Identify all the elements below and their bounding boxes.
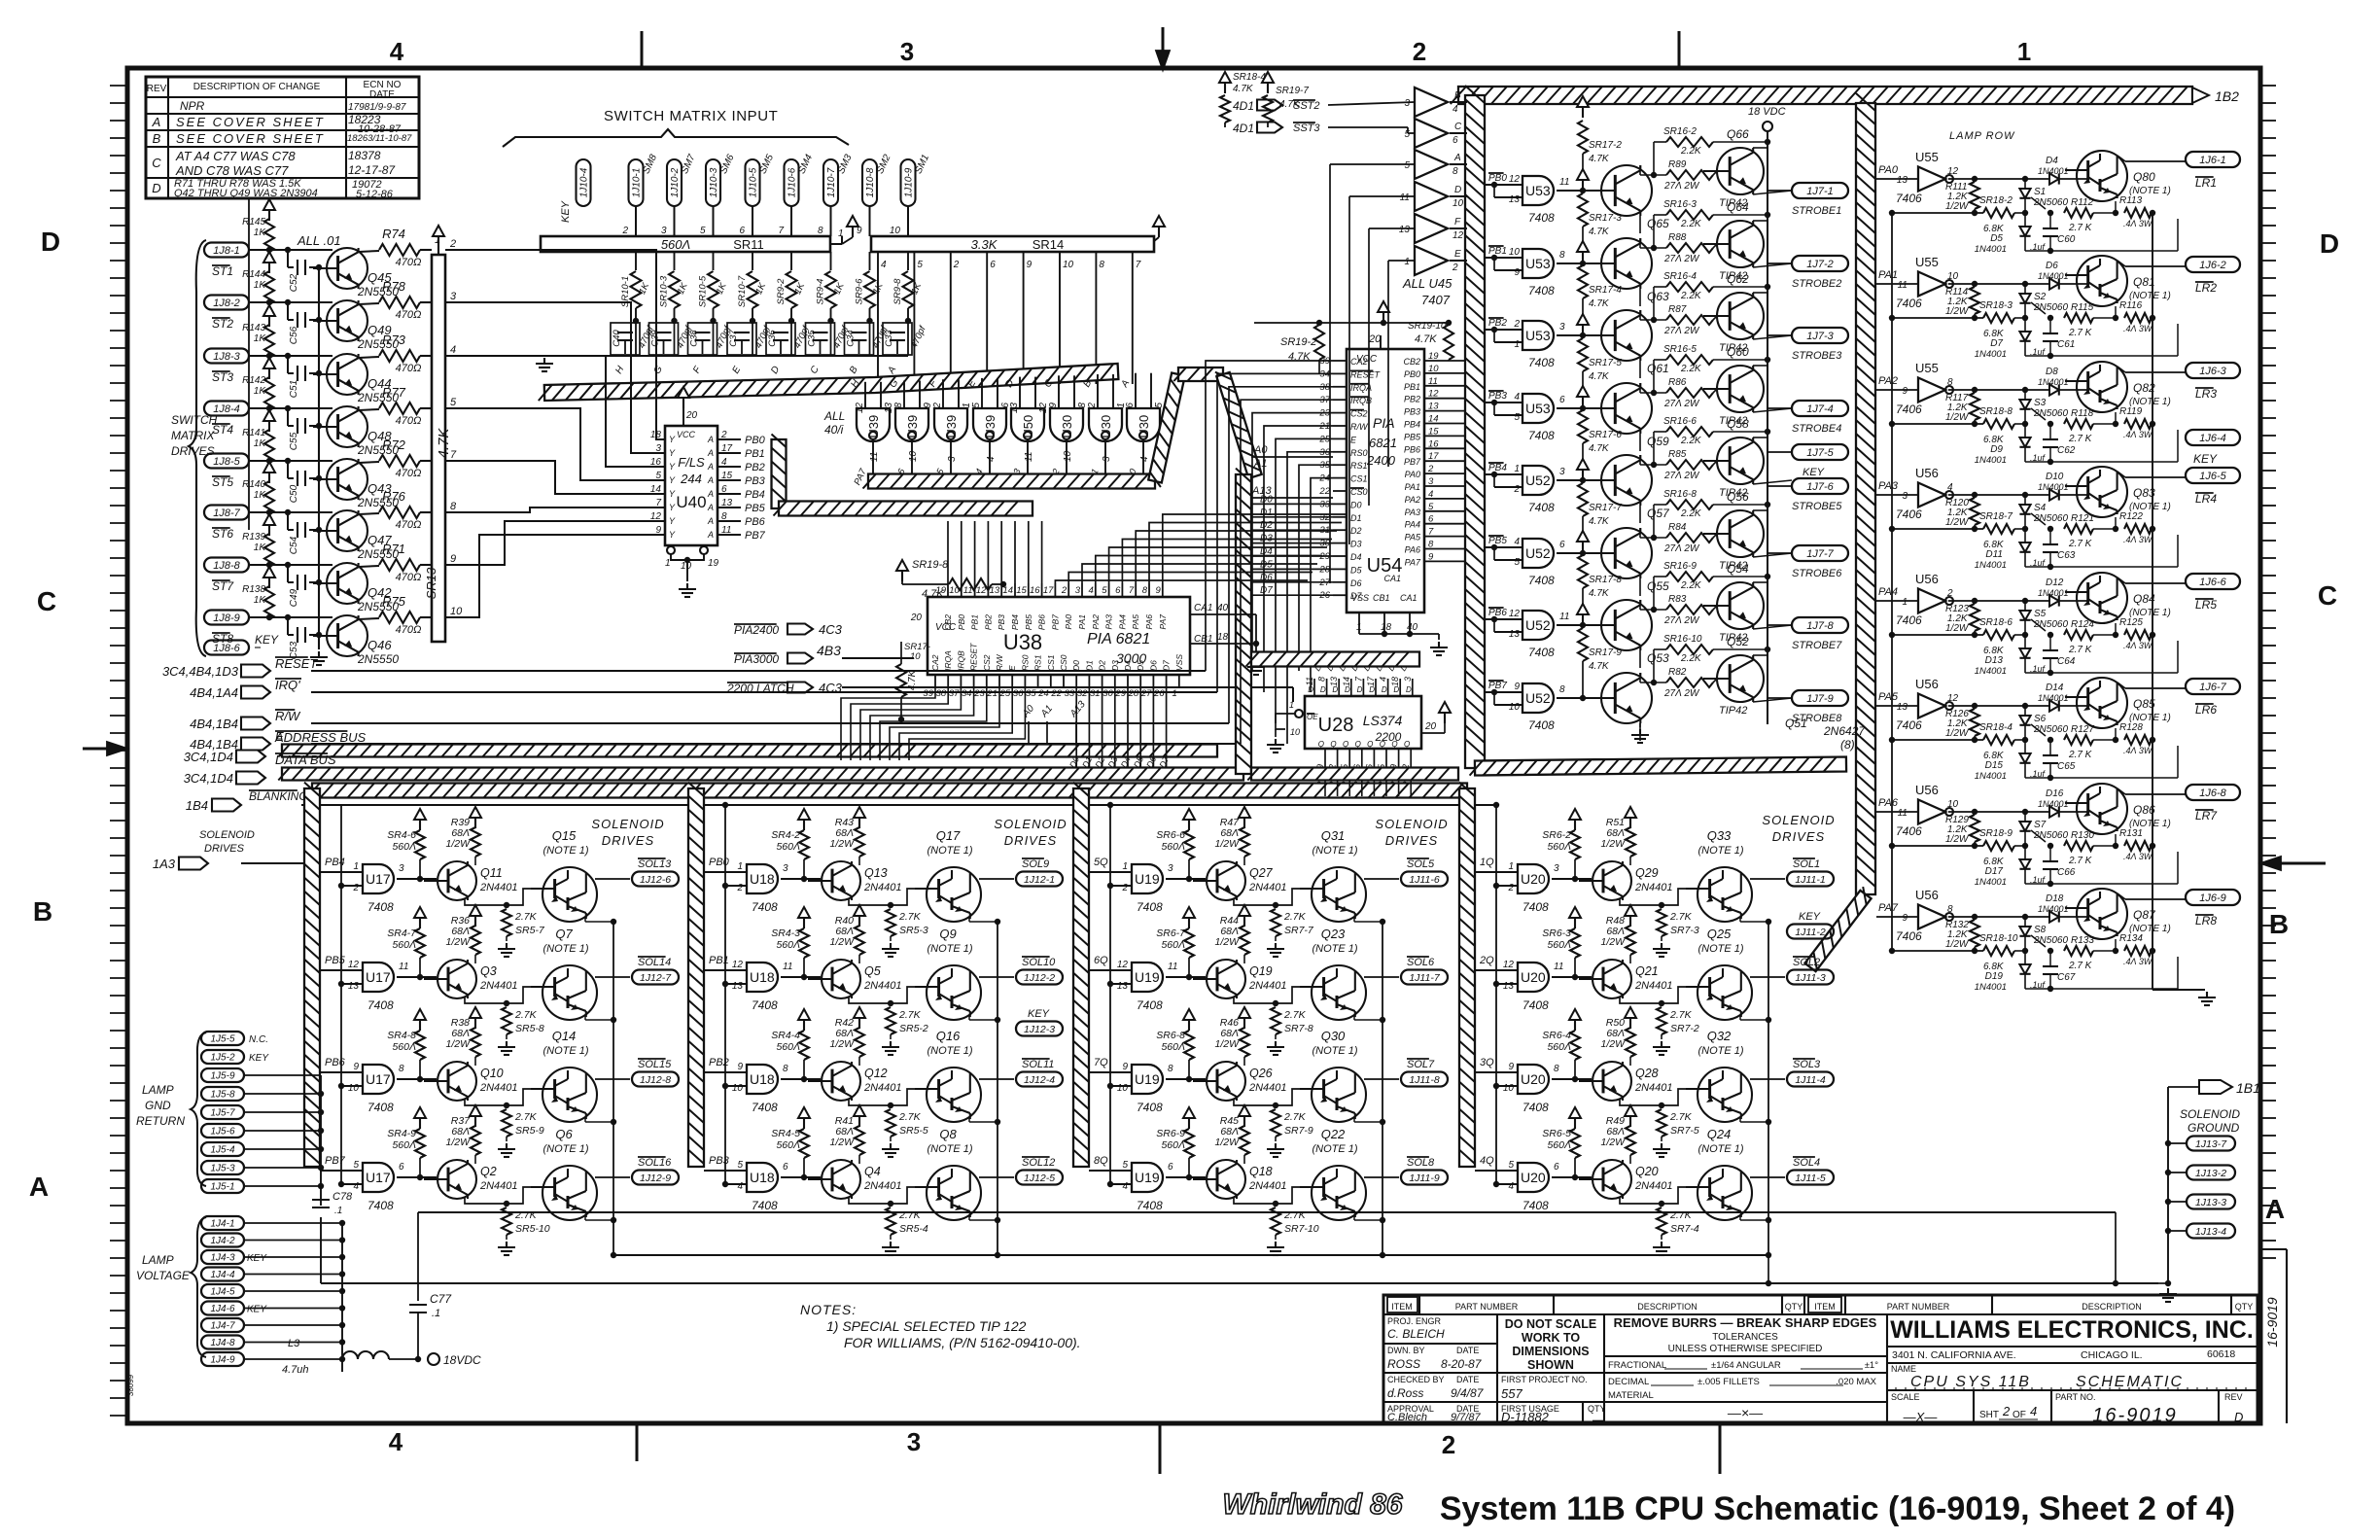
svg-text:1K: 1K bbox=[254, 386, 267, 397]
zone divider top 2 bbox=[1678, 31, 1681, 70]
svg-text:2N4401: 2N4401 bbox=[863, 1082, 902, 1094]
svg-text:5Q: 5Q bbox=[1094, 857, 1108, 868]
svg-text:1J5-8: 1J5-8 bbox=[210, 1090, 234, 1101]
capacitor C63 .1uf bbox=[2049, 529, 2051, 544]
resistor SR4-9 560 bbox=[419, 1117, 421, 1129]
svg-text:D2: D2 bbox=[1260, 520, 1273, 531]
wire row bbox=[249, 249, 332, 251]
svg-text:U17: U17 bbox=[366, 1071, 391, 1087]
svg-text:SR18-6: SR18-6 bbox=[1979, 617, 2012, 628]
svg-text:5: 5 bbox=[700, 226, 706, 236]
svg-text:D1: D1 bbox=[1084, 660, 1094, 671]
svg-text:U52: U52 bbox=[1525, 690, 1551, 706]
pin U38 R/W bbox=[998, 675, 1000, 686]
svg-text:1J5-5: 1J5-5 bbox=[210, 1034, 234, 1045]
pin U54 PA4 bbox=[1424, 523, 1464, 525]
svg-text:D3: D3 bbox=[1350, 540, 1362, 549]
svg-text:1J12-9: 1J12-9 bbox=[640, 1172, 671, 1184]
svg-text:560Λ: 560Λ bbox=[392, 1139, 416, 1151]
connector 1J4-5 bbox=[201, 1284, 244, 1298]
svg-text:Q59: Q59 bbox=[1647, 435, 1669, 448]
wire emitter to SR5 bbox=[1620, 1099, 1662, 1105]
lamp cell top wire bbox=[1948, 283, 2088, 285]
svg-text:RESET: RESET bbox=[969, 643, 979, 671]
pin U54 CA2 bbox=[1333, 360, 1347, 362]
svg-text:13: 13 bbox=[1117, 981, 1129, 992]
svg-text:BLANKING: BLANKING bbox=[249, 789, 308, 803]
svg-text:1/2W: 1/2W bbox=[1214, 1137, 1240, 1148]
svg-text:5: 5 bbox=[1102, 585, 1107, 596]
svg-text:PB4: PB4 bbox=[1488, 463, 1507, 473]
svg-text:KEY: KEY bbox=[1028, 1008, 1050, 1020]
resistor R121 2.7K bbox=[2064, 524, 2093, 534]
svg-text:4D1: 4D1 bbox=[1233, 99, 1254, 113]
capacitor common bus bbox=[318, 267, 320, 649]
svg-text:2: 2 bbox=[1513, 319, 1520, 330]
svg-text:3: 3 bbox=[1168, 863, 1173, 874]
strobe output wire bbox=[1753, 698, 1792, 702]
svg-text:Q: Q bbox=[1318, 740, 1324, 749]
svg-text:1J6-2: 1J6-2 bbox=[2199, 260, 2226, 271]
svg-text:11: 11 bbox=[1898, 808, 1907, 819]
pin U38 IRQA bbox=[947, 675, 949, 686]
svg-text:Q65: Q65 bbox=[1647, 217, 1669, 230]
svg-text:U56: U56 bbox=[1915, 677, 1939, 691]
resistor SR17-2 4.7K bbox=[1582, 106, 1584, 118]
svg-text:PB6: PB6 bbox=[1404, 444, 1420, 454]
svg-text:ROSS: ROSS bbox=[1387, 1357, 1420, 1371]
svg-text:560Λ: 560Λ bbox=[1161, 939, 1185, 951]
resistor SR7-7 2.7K bbox=[1271, 909, 1280, 936]
resistor R77 470ohm bbox=[359, 409, 379, 410]
border frame bbox=[127, 68, 2260, 1423]
wire emitter to SR5 bbox=[1620, 997, 1662, 1003]
transistor Q62 TIP42 bbox=[1717, 293, 1764, 339]
wire lamp gnd bbox=[244, 1111, 321, 1113]
svg-text:C51: C51 bbox=[289, 380, 299, 398]
transistor Q52 TIP42 bbox=[1717, 655, 1764, 702]
svg-text:1J10-1: 1J10-1 bbox=[632, 168, 643, 198]
wire to output pill bbox=[595, 1078, 630, 1080]
resistor R88 27ohm 2W bbox=[1666, 243, 1713, 253]
svg-text:7408: 7408 bbox=[1137, 1101, 1163, 1114]
svg-text:R142: R142 bbox=[242, 375, 265, 386]
resistor R84 27ohm 2W bbox=[1666, 533, 1713, 542]
connector 1J11-4 bbox=[1787, 1072, 1834, 1087]
svg-text:Q21: Q21 bbox=[1635, 964, 1659, 978]
svg-text:1J6-3: 1J6-3 bbox=[2199, 366, 2226, 377]
svg-text:R134: R134 bbox=[2119, 933, 2143, 944]
svg-text:7408: 7408 bbox=[1528, 501, 1555, 514]
resistor SR4-4 560 bbox=[803, 1019, 805, 1031]
svg-text:11: 11 bbox=[1305, 677, 1314, 685]
svg-text:S7: S7 bbox=[2034, 820, 2047, 830]
connector 1J5-7 bbox=[201, 1105, 244, 1119]
svg-text:(NOTE 1): (NOTE 1) bbox=[1312, 845, 1357, 857]
svg-text:C: C bbox=[2318, 580, 2337, 611]
svg-text:SR5-3: SR5-3 bbox=[899, 925, 928, 936]
svg-text:1J8-4: 1J8-4 bbox=[213, 403, 240, 415]
pin U38 PA1 bbox=[1081, 583, 1083, 597]
wire lamp gnd bbox=[244, 1185, 321, 1187]
resistor SR16-5 2.2K bbox=[1666, 355, 1713, 365]
svg-text:10: 10 bbox=[1290, 727, 1300, 737]
svg-text:10: 10 bbox=[908, 450, 919, 462]
svg-text:2N5060: 2N5060 bbox=[2033, 302, 2068, 313]
svg-text:1J4-3: 1J4-3 bbox=[210, 1253, 234, 1264]
svg-text:D3: D3 bbox=[1110, 660, 1120, 671]
svg-text:1/2W: 1/2W bbox=[445, 838, 471, 850]
connector 1J4-3 bbox=[201, 1250, 244, 1264]
connector 1J5-6 bbox=[201, 1124, 244, 1137]
wire connector to SR11 bbox=[869, 206, 871, 236]
svg-text:Q29: Q29 bbox=[1635, 866, 1659, 880]
bus band switch matrix to gates bbox=[544, 364, 1119, 401]
svg-text:1J7-4: 1J7-4 bbox=[1806, 403, 1834, 415]
svg-text:C50: C50 bbox=[289, 484, 299, 503]
svg-text:2: 2 bbox=[1452, 262, 1458, 273]
resistor SR18-10 6.8K bbox=[1983, 946, 2014, 956]
svg-text:557: 557 bbox=[1501, 1386, 1522, 1401]
svg-text:VCC: VCC bbox=[677, 430, 696, 439]
svg-text:U30: U30 bbox=[1137, 415, 1151, 438]
svg-text:3: 3 bbox=[1902, 491, 1907, 502]
connector 1J7-1 bbox=[1792, 183, 1848, 198]
svg-text:33: 33 bbox=[1065, 688, 1075, 699]
svg-text:S8: S8 bbox=[2034, 925, 2047, 935]
svg-text:560Λ: 560Λ bbox=[1161, 1041, 1185, 1053]
svg-text:Q19: Q19 bbox=[1249, 964, 1273, 978]
gate U18 7408 bbox=[747, 962, 778, 992]
svg-text:R138: R138 bbox=[242, 584, 265, 595]
svg-text:PB3: PB3 bbox=[997, 614, 1006, 630]
wire lamp voltage bbox=[244, 1290, 342, 1292]
svg-text:5: 5 bbox=[1514, 412, 1520, 423]
connector 1J5-1 bbox=[201, 1179, 244, 1193]
svg-text:D16: D16 bbox=[2046, 788, 2064, 799]
svg-text:Q56: Q56 bbox=[1727, 490, 1749, 504]
svg-text:SOL13: SOL13 bbox=[638, 858, 672, 870]
svg-text:470Ω: 470Ω bbox=[396, 624, 422, 636]
emitter drop bbox=[584, 1216, 586, 1220]
pin U54 D6 bbox=[1333, 581, 1347, 583]
svg-text:1/2W: 1/2W bbox=[1214, 936, 1240, 948]
transistor Q27 2N4401 bbox=[1207, 861, 1245, 900]
svg-text:6: 6 bbox=[1115, 585, 1121, 596]
svg-text:26: 26 bbox=[1153, 688, 1165, 699]
transistor Q3 2N4401 bbox=[437, 960, 476, 998]
svg-text:VSS: VSS bbox=[1174, 654, 1184, 671]
svg-text:C67: C67 bbox=[2057, 972, 2076, 983]
svg-text:Q: Q bbox=[1367, 740, 1373, 749]
svg-text:1J12-5: 1J12-5 bbox=[1024, 1172, 1055, 1184]
connector 1J11-2 bbox=[1787, 925, 1834, 939]
svg-text:2: 2 bbox=[449, 238, 456, 250]
wire emitter to SR5 bbox=[849, 1197, 891, 1204]
svg-text:1/2W: 1/2W bbox=[1945, 939, 1970, 950]
svg-text:GROUND: GROUND bbox=[2187, 1121, 2240, 1135]
transistor Q17 NOTE1 bbox=[927, 867, 981, 922]
svg-text:TIP42: TIP42 bbox=[1719, 705, 1747, 717]
emitter drop bbox=[1739, 1216, 1741, 1220]
svg-text:FOR WILLIAMS, (P/N 5162-09410-: FOR WILLIAMS, (P/N 5162-09410-00). bbox=[844, 1335, 1081, 1350]
svg-text:Q9: Q9 bbox=[939, 927, 956, 941]
svg-text:28: 28 bbox=[1128, 688, 1139, 699]
svg-text:2N4401: 2N4401 bbox=[1634, 1082, 1673, 1094]
svg-text:9: 9 bbox=[1122, 1062, 1128, 1072]
svg-text:470Ω: 470Ω bbox=[396, 572, 422, 583]
svg-text:3: 3 bbox=[900, 37, 914, 66]
svg-text:Q63: Q63 bbox=[1647, 290, 1669, 303]
svg-text:27Λ 2W: 27Λ 2W bbox=[1663, 615, 1700, 626]
IC U54 PIA 6821 bbox=[1347, 349, 1424, 612]
svg-text:VOLTAGE: VOLTAGE bbox=[136, 1269, 191, 1282]
control line elbows to U54 bbox=[1206, 361, 1333, 671]
strobe output wire bbox=[1753, 335, 1792, 339]
svg-text:18 VDC: 18 VDC bbox=[1748, 106, 1786, 118]
wire lamp voltage bbox=[244, 1324, 342, 1326]
svg-text:SR9-8: SR9-8 bbox=[892, 278, 903, 305]
pin U54 PB7 bbox=[1424, 460, 1464, 462]
svg-text:1/2W: 1/2W bbox=[1945, 201, 1970, 212]
svg-text:U53: U53 bbox=[1525, 401, 1551, 416]
svg-text:1: 1 bbox=[1404, 257, 1410, 267]
svg-text:8: 8 bbox=[818, 226, 823, 236]
svg-text:1/2W: 1/2W bbox=[829, 1137, 855, 1148]
connector 1J4-8 bbox=[201, 1336, 244, 1349]
connector 1J5-5 bbox=[201, 1032, 244, 1045]
svg-text:CS1: CS1 bbox=[1350, 474, 1368, 484]
svg-text:11: 11 bbox=[869, 452, 880, 462]
wire row bbox=[249, 564, 332, 566]
svg-text:D14: D14 bbox=[2046, 682, 2064, 693]
svg-text:CB2: CB2 bbox=[943, 614, 953, 631]
svg-text:SR6-6: SR6-6 bbox=[1156, 829, 1185, 841]
svg-text:5: 5 bbox=[737, 1160, 743, 1171]
wire emitter to SR5 bbox=[1620, 898, 1662, 905]
emitter drop bbox=[1353, 1118, 1355, 1122]
resistor R113 .4ohm 3W bbox=[2124, 208, 2152, 218]
svg-text:34: 34 bbox=[962, 688, 972, 699]
svg-text:7408: 7408 bbox=[367, 998, 394, 1012]
svg-text:1/2W: 1/2W bbox=[1945, 623, 1970, 634]
svg-text:Y: Y bbox=[669, 462, 676, 472]
svg-text:WILLIAMS ELECTRONICS, INC.: WILLIAMS ELECTRONICS, INC. bbox=[1890, 1316, 2254, 1344]
svg-text:12: 12 bbox=[348, 960, 360, 970]
svg-text:D4: D4 bbox=[1350, 552, 1362, 562]
pin U38 CS2 bbox=[986, 675, 988, 686]
connector 1J7-6 bbox=[1792, 478, 1848, 494]
emitter bus U17 bbox=[612, 922, 614, 1255]
svg-text:SR7-3: SR7-3 bbox=[1670, 925, 1699, 936]
svg-text:1J12-4: 1J12-4 bbox=[1024, 1074, 1055, 1086]
svg-text:PB6: PB6 bbox=[325, 1057, 346, 1068]
svg-text:13: 13 bbox=[1897, 175, 1908, 186]
svg-text:10: 10 bbox=[910, 651, 921, 662]
svg-text:SOL2: SOL2 bbox=[1793, 957, 1820, 968]
svg-text:7: 7 bbox=[1129, 585, 1135, 596]
svg-text:C.Bleich: C.Bleich bbox=[1387, 1412, 1427, 1423]
diode D17 1N4001 bbox=[2024, 846, 2026, 860]
svg-text:LR7: LR7 bbox=[2195, 809, 2218, 822]
svg-text:7406: 7406 bbox=[1896, 613, 1922, 627]
svg-text:(NOTE 1): (NOTE 1) bbox=[542, 1045, 588, 1057]
svg-text:Q58: Q58 bbox=[1727, 417, 1749, 431]
svg-text:2.2K: 2.2K bbox=[1680, 580, 1702, 591]
resistor network SR14 3.3K bbox=[871, 236, 1154, 252]
wire to output pill bbox=[595, 976, 630, 978]
svg-text:1/2W: 1/2W bbox=[1600, 1137, 1626, 1148]
pin U54 PA3 bbox=[1424, 510, 1464, 512]
solenoid gate input wires bbox=[704, 969, 747, 971]
wire to output pill bbox=[1364, 878, 1399, 880]
pin U54 PB0 bbox=[1424, 372, 1464, 374]
svg-text:2.7K: 2.7K bbox=[1669, 911, 1693, 923]
gate U39 bbox=[934, 408, 967, 441]
wire gate output bbox=[397, 1176, 437, 1178]
svg-text:Q64: Q64 bbox=[1727, 200, 1749, 214]
emitter drop bbox=[1739, 1016, 1741, 1020]
svg-text:SR4-2: SR4-2 bbox=[771, 829, 800, 841]
wire lamp voltage bbox=[244, 1308, 342, 1310]
bus band wall left vertical bbox=[1465, 95, 1485, 768]
svg-text:19: 19 bbox=[708, 558, 719, 569]
svg-text:U19: U19 bbox=[1135, 969, 1160, 985]
svg-text:R86: R86 bbox=[1668, 377, 1687, 388]
svg-text:5: 5 bbox=[353, 1160, 359, 1171]
svg-text:9: 9 bbox=[1902, 913, 1907, 924]
transistor Q5 2N4401 bbox=[822, 960, 860, 998]
svg-text:4: 4 bbox=[450, 344, 456, 356]
pin U38 D6 bbox=[1152, 675, 1154, 686]
SCR S8 2N5060 bbox=[2024, 917, 2026, 927]
pin U54 IRQB bbox=[1333, 399, 1347, 401]
wire SR14 pin 2 bbox=[950, 252, 952, 384]
pin U54 CS1 bbox=[1333, 477, 1347, 479]
svg-text:C. BLEICH: C. BLEICH bbox=[1387, 1327, 1445, 1341]
svg-text:3: 3 bbox=[1075, 585, 1081, 596]
pin U38 PB7 bbox=[1054, 583, 1056, 597]
svg-text:3C4,1D4: 3C4,1D4 bbox=[184, 771, 233, 786]
bus band PB from U40 bbox=[772, 439, 787, 508]
svg-text:CB2: CB2 bbox=[1403, 357, 1420, 367]
svg-text:(NOTE 1): (NOTE 1) bbox=[1312, 1045, 1357, 1057]
capacitor C56 .01 bbox=[287, 302, 289, 320]
diode D16 1N4001 bbox=[2049, 806, 2059, 817]
svg-text:ALL .01: ALL .01 bbox=[297, 233, 341, 248]
resistor R86 27ohm 2W bbox=[1666, 388, 1713, 398]
svg-text:PA6: PA6 bbox=[1405, 545, 1420, 555]
svg-text:10: 10 bbox=[1117, 1083, 1129, 1094]
svg-text:SEE COVER SHEET: SEE COVER SHEET bbox=[176, 131, 325, 146]
bus band wall mid diagonal bbox=[1804, 891, 1871, 971]
gate U19 7408 bbox=[1132, 962, 1163, 992]
svg-text:SR18-4: SR18-4 bbox=[1979, 722, 2012, 733]
svg-text:7406: 7406 bbox=[1896, 402, 1922, 416]
svg-text:2N5060: 2N5060 bbox=[2033, 619, 2068, 630]
svg-text:1) SPECIAL SELECTED TIP 122: 1) SPECIAL SELECTED TIP 122 bbox=[826, 1318, 1027, 1334]
svg-text:7Q: 7Q bbox=[1094, 1057, 1108, 1068]
svg-text:2.7 K: 2.7 K bbox=[2068, 223, 2093, 233]
svg-text:6: 6 bbox=[1428, 514, 1434, 525]
svg-text:Q4: Q4 bbox=[864, 1165, 881, 1178]
svg-text:SR4-8: SR4-8 bbox=[387, 1030, 416, 1041]
svg-text:40/i: 40/i bbox=[824, 423, 844, 437]
svg-text:DATA BUS: DATA BUS bbox=[275, 752, 336, 767]
svg-text:1J8-7: 1J8-7 bbox=[213, 507, 240, 519]
connector 1J8-6 KEY bbox=[204, 641, 249, 655]
resistor R73 470ohm bbox=[359, 357, 379, 358]
connector 1J4-9 bbox=[201, 1352, 244, 1366]
svg-text:D7: D7 bbox=[1260, 585, 1273, 596]
brace lamp voltage bbox=[191, 1217, 206, 1357]
lamp collector to pill bbox=[2117, 472, 2125, 477]
svg-text:7408: 7408 bbox=[1522, 998, 1549, 1012]
svg-text:1J12-7: 1J12-7 bbox=[640, 972, 672, 984]
power arrow above U54 bbox=[1382, 311, 1384, 323]
resistor SR17-9 4.7K bbox=[1582, 613, 1584, 625]
svg-text:1K: 1K bbox=[254, 333, 267, 344]
svg-text:1K: 1K bbox=[254, 542, 267, 553]
connector 1J7-5 bbox=[1792, 444, 1848, 460]
svg-text:SR6-2: SR6-2 bbox=[1542, 829, 1571, 841]
wire row bbox=[249, 616, 332, 618]
solenoid gate input wires bbox=[1475, 1071, 1518, 1073]
wire row bbox=[249, 511, 332, 513]
svg-text:6Q: 6Q bbox=[1094, 955, 1108, 966]
svg-text:D: D bbox=[2234, 1410, 2243, 1424]
svg-text:Q82: Q82 bbox=[2133, 381, 2155, 395]
svg-text:9: 9 bbox=[737, 1062, 743, 1072]
svg-text:31: 31 bbox=[1090, 688, 1101, 699]
svg-text:R88: R88 bbox=[1668, 232, 1687, 243]
svg-text:SR19-8: SR19-8 bbox=[912, 559, 949, 571]
connector 1J12-5 bbox=[1016, 1171, 1063, 1185]
svg-text:2N4401: 2N4401 bbox=[863, 980, 902, 992]
svg-text:Q28: Q28 bbox=[1635, 1067, 1659, 1080]
svg-text:1J6-7: 1J6-7 bbox=[2199, 682, 2226, 693]
svg-text:1J5-1: 1J5-1 bbox=[210, 1182, 234, 1193]
gate U39 input wires bbox=[864, 382, 866, 408]
svg-text:SOLENOID: SOLENOID bbox=[199, 829, 255, 841]
svg-text:30: 30 bbox=[1102, 688, 1113, 699]
svg-text:2.7K: 2.7K bbox=[898, 1111, 922, 1123]
resistor R127 2.7K bbox=[2064, 735, 2093, 745]
capacitor C78 .1 bbox=[312, 1199, 330, 1201]
svg-text:4: 4 bbox=[1089, 585, 1094, 596]
svg-text:1J11-6: 1J11-6 bbox=[1409, 874, 1439, 886]
svg-text:PB2: PB2 bbox=[1404, 395, 1420, 404]
transistor Q11 2N4401 bbox=[437, 861, 476, 900]
wire gate output bbox=[1552, 1176, 1592, 1178]
svg-text:S3: S3 bbox=[2034, 398, 2047, 408]
svg-text:4: 4 bbox=[389, 1427, 403, 1456]
resistor SR18-4 6.8K bbox=[1983, 735, 2014, 745]
svg-text:2.7K: 2.7K bbox=[1669, 1209, 1693, 1221]
svg-text:1: 1 bbox=[838, 228, 844, 239]
wire to output pill bbox=[1750, 878, 1785, 880]
svg-text:C40: C40 bbox=[612, 330, 622, 347]
U28 Q pins bbox=[1324, 749, 1326, 768]
bus band data trunk vertical bbox=[1236, 474, 1251, 774]
svg-text:2.2K: 2.2K bbox=[1680, 508, 1702, 519]
svg-text:R82: R82 bbox=[1668, 667, 1687, 678]
svg-text:Whirlwind 86: Whirlwind 86 bbox=[1222, 1488, 1402, 1521]
svg-text:.4Λ 3W: .4Λ 3W bbox=[2123, 535, 2153, 544]
svg-text:10: 10 bbox=[1509, 247, 1521, 258]
emitter drop bbox=[584, 1016, 586, 1020]
svg-text:C38: C38 bbox=[689, 330, 700, 347]
